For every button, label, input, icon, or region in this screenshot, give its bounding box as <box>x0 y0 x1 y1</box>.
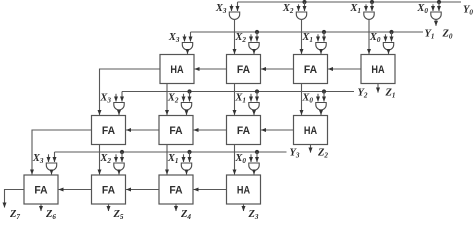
svg-text:HA: HA <box>304 125 317 137</box>
svg-text:FA: FA <box>102 125 115 137</box>
svg-text:HA: HA <box>170 64 183 76</box>
svg-text:FA: FA <box>34 184 47 196</box>
svg-text:FA: FA <box>169 125 182 137</box>
svg-text:HA: HA <box>371 64 384 76</box>
svg-text:FA: FA <box>237 125 250 137</box>
svg-text:FA: FA <box>102 184 115 196</box>
svg-text:FA: FA <box>304 64 317 76</box>
svg-text:HA: HA <box>237 184 250 196</box>
svg-text:FA: FA <box>237 64 250 76</box>
svg-text:FA: FA <box>169 184 182 196</box>
